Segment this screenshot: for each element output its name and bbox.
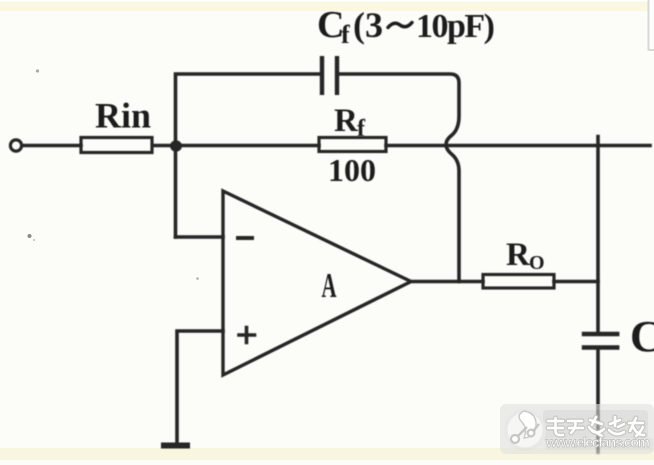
op-amp A <box>223 191 411 375</box>
svg-text:C: C <box>630 312 654 361</box>
svg-text:10pF): 10pF) <box>416 8 494 45</box>
watermark chinese text <box>548 417 644 436</box>
svg-text:Rin: Rin <box>95 96 151 136</box>
wire Cf right plate to feedback drop <box>337 74 459 282</box>
svg-text:R: R <box>506 237 531 273</box>
plus sign <box>239 328 255 343</box>
capacitor Cf <box>320 58 324 93</box>
node A junction dot <box>170 140 182 151</box>
wire C to bottom <box>596 348 600 453</box>
wire right branch down <box>596 137 600 335</box>
input terminal <box>10 140 21 151</box>
wire plus input to ground <box>177 331 223 444</box>
wire op-amp output <box>411 280 483 284</box>
svg-text:f: f <box>341 20 350 49</box>
scan specks <box>28 234 32 238</box>
bottom cream strip <box>0 448 654 460</box>
wire Rf to right edge <box>386 144 650 148</box>
wire node A up <box>176 74 323 237</box>
svg-text:(3: (3 <box>353 5 383 45</box>
minus sign <box>238 236 252 240</box>
scan artifact top-right frame <box>648 0 650 50</box>
watermark elecfans logo <box>508 411 651 450</box>
svg-text:O: O <box>529 252 545 274</box>
capacitor C <box>584 332 617 336</box>
svg-text:f: f <box>357 116 366 142</box>
wire R0 to right branch <box>554 280 598 284</box>
svg-text:A: A <box>322 266 337 305</box>
wire Rin to node A <box>153 144 319 148</box>
svg-text:R: R <box>334 103 359 139</box>
resistor Rin <box>81 138 152 153</box>
svg-text:100: 100 <box>328 152 376 188</box>
watermark backdrop <box>500 404 654 454</box>
resistor R0 <box>483 275 554 289</box>
resistor Rf <box>319 138 386 152</box>
wire input to Rin <box>23 144 82 148</box>
ground <box>164 443 187 449</box>
wire minus input stub <box>176 235 224 239</box>
svg-text:www.elecfans.com: www.elecfans.com <box>545 434 650 450</box>
